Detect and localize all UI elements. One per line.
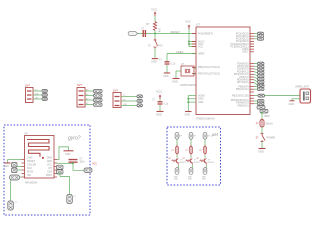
svg-text:10k: 10k	[158, 28, 162, 33]
svg-text:GND: GND	[156, 113, 162, 117]
svg-text:PD7(AIN1): PD7(AIN1)	[237, 81, 249, 84]
svg-text:GND: GND	[198, 101, 204, 104]
svg-text:M?: M?	[179, 136, 182, 138]
svg-text:IC?: IC?	[196, 23, 201, 27]
svg-text:/RESET: /RESET	[170, 30, 180, 34]
svg-text:GND: GND	[258, 150, 264, 154]
svg-text:RST: RST	[158, 45, 163, 48]
svg-text:µM: µM	[212, 132, 219, 137]
svg-text:MISO: MISO	[46, 174, 52, 177]
svg-text:MPU6050A: MPU6050A	[25, 182, 38, 185]
svg-text:VCC: VCC	[185, 20, 192, 24]
svg-text:ADC7: ADC7	[242, 51, 249, 54]
svg-text:M?: M?	[207, 136, 210, 138]
svg-text:PC6(/RESET): PC6(/RESET)	[198, 32, 213, 35]
svg-text:PB6(XTAL1/TOSC1): PB6(XTAL1/TOSC1)	[198, 66, 220, 69]
svg-text:BC847: BC847	[180, 162, 187, 164]
svg-text:BC847: BC847	[208, 162, 215, 164]
svg-text:AREF: AREF	[176, 50, 184, 54]
svg-text:ATMEGA168-AU: ATMEGA168-AU	[196, 118, 215, 121]
svg-text:GND: GND	[65, 153, 71, 156]
svg-text:GND: GND	[4, 165, 10, 168]
svg-text:GND: GND	[202, 179, 207, 181]
svg-text:VIBRO_MOT: VIBRO_MOT	[295, 86, 310, 89]
svg-text:VCC: VCC	[92, 163, 97, 166]
svg-text:PB7(XTAL2/TOSC2): PB7(XTAL2/TOSC2)	[198, 72, 220, 75]
svg-text:GND: GND	[151, 61, 157, 64]
svg-text:SV?: SV?	[77, 83, 82, 87]
svg-text:PB5(SCK): PB5(SCK)	[237, 104, 248, 107]
svg-text:AREF: AREF	[198, 52, 205, 55]
svg-text:POWER: POWER	[267, 138, 276, 140]
svg-text:R?: R?	[146, 22, 150, 26]
svg-text:BC847: BC847	[194, 162, 201, 164]
svg-text:VCC: VCC	[198, 45, 203, 48]
svg-text:500mA: 500mA	[266, 123, 274, 126]
svg-text:GND: GND	[188, 179, 193, 181]
svg-text:PB2(SS/OC1B): PB2(SS/OC1B)	[232, 94, 249, 97]
svg-text:GND: GND	[185, 114, 191, 117]
svg-text:GND: GND	[172, 80, 178, 84]
svg-text:GND: GND	[289, 103, 295, 106]
svg-text:0.1u: 0.1u	[171, 63, 176, 66]
svg-text:SV?: SV?	[25, 84, 30, 88]
svg-text:GND: GND	[174, 179, 179, 181]
svg-text:VCC: VCC	[156, 90, 163, 94]
svg-text:GND: GND	[163, 75, 169, 78]
svg-text:VBAT: VBAT	[264, 115, 270, 118]
svg-text:VCC: VCC	[151, 8, 158, 12]
svg-text:SDI: SDI	[27, 174, 31, 177]
svg-text:PB1(OC1A): PB1(OC1A)	[236, 88, 249, 91]
svg-text:gyro?: gyro?	[68, 136, 81, 142]
svg-text:M?: M?	[193, 136, 196, 138]
svg-text:SV?: SV?	[113, 89, 118, 93]
svg-text:16MHz/20MHz: 16MHz/20MHz	[180, 84, 197, 87]
svg-text:0.1u: 0.1u	[164, 103, 169, 106]
